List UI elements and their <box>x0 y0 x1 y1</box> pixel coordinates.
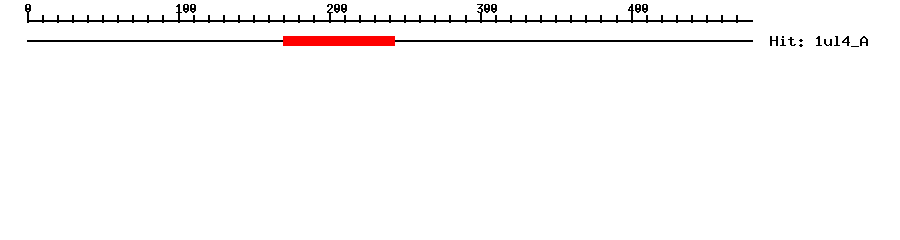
ruler major tick 300 <box>480 13 482 23</box>
ruler label 300 <box>477 4 497 13</box>
ruler major tick 0 <box>27 13 29 23</box>
ruler minor ticks <box>42 15 738 23</box>
ruler label 100 <box>176 4 196 13</box>
ruler major tick 200 <box>329 13 331 23</box>
ruler major tick 100 <box>178 13 180 23</box>
hit bar (red) <box>283 36 395 46</box>
ruler label 200 <box>327 4 347 13</box>
ruler label 0 <box>25 4 31 13</box>
sequence line <box>27 40 753 42</box>
hit text: Hit: 1ul4_A <box>770 36 868 47</box>
ruler label 400 <box>628 4 648 13</box>
sequence hit diagram <box>0 0 900 60</box>
ruler major tick 400 <box>631 13 633 23</box>
ruler axis line <box>27 20 753 22</box>
